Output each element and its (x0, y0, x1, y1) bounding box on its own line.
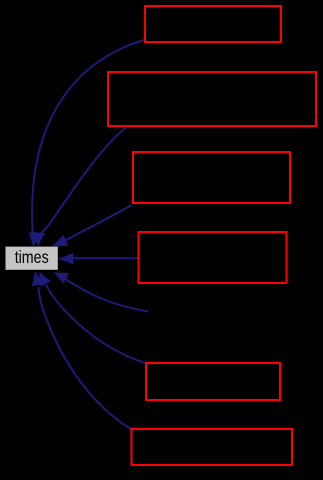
svg-text:times: times (15, 247, 49, 267)
